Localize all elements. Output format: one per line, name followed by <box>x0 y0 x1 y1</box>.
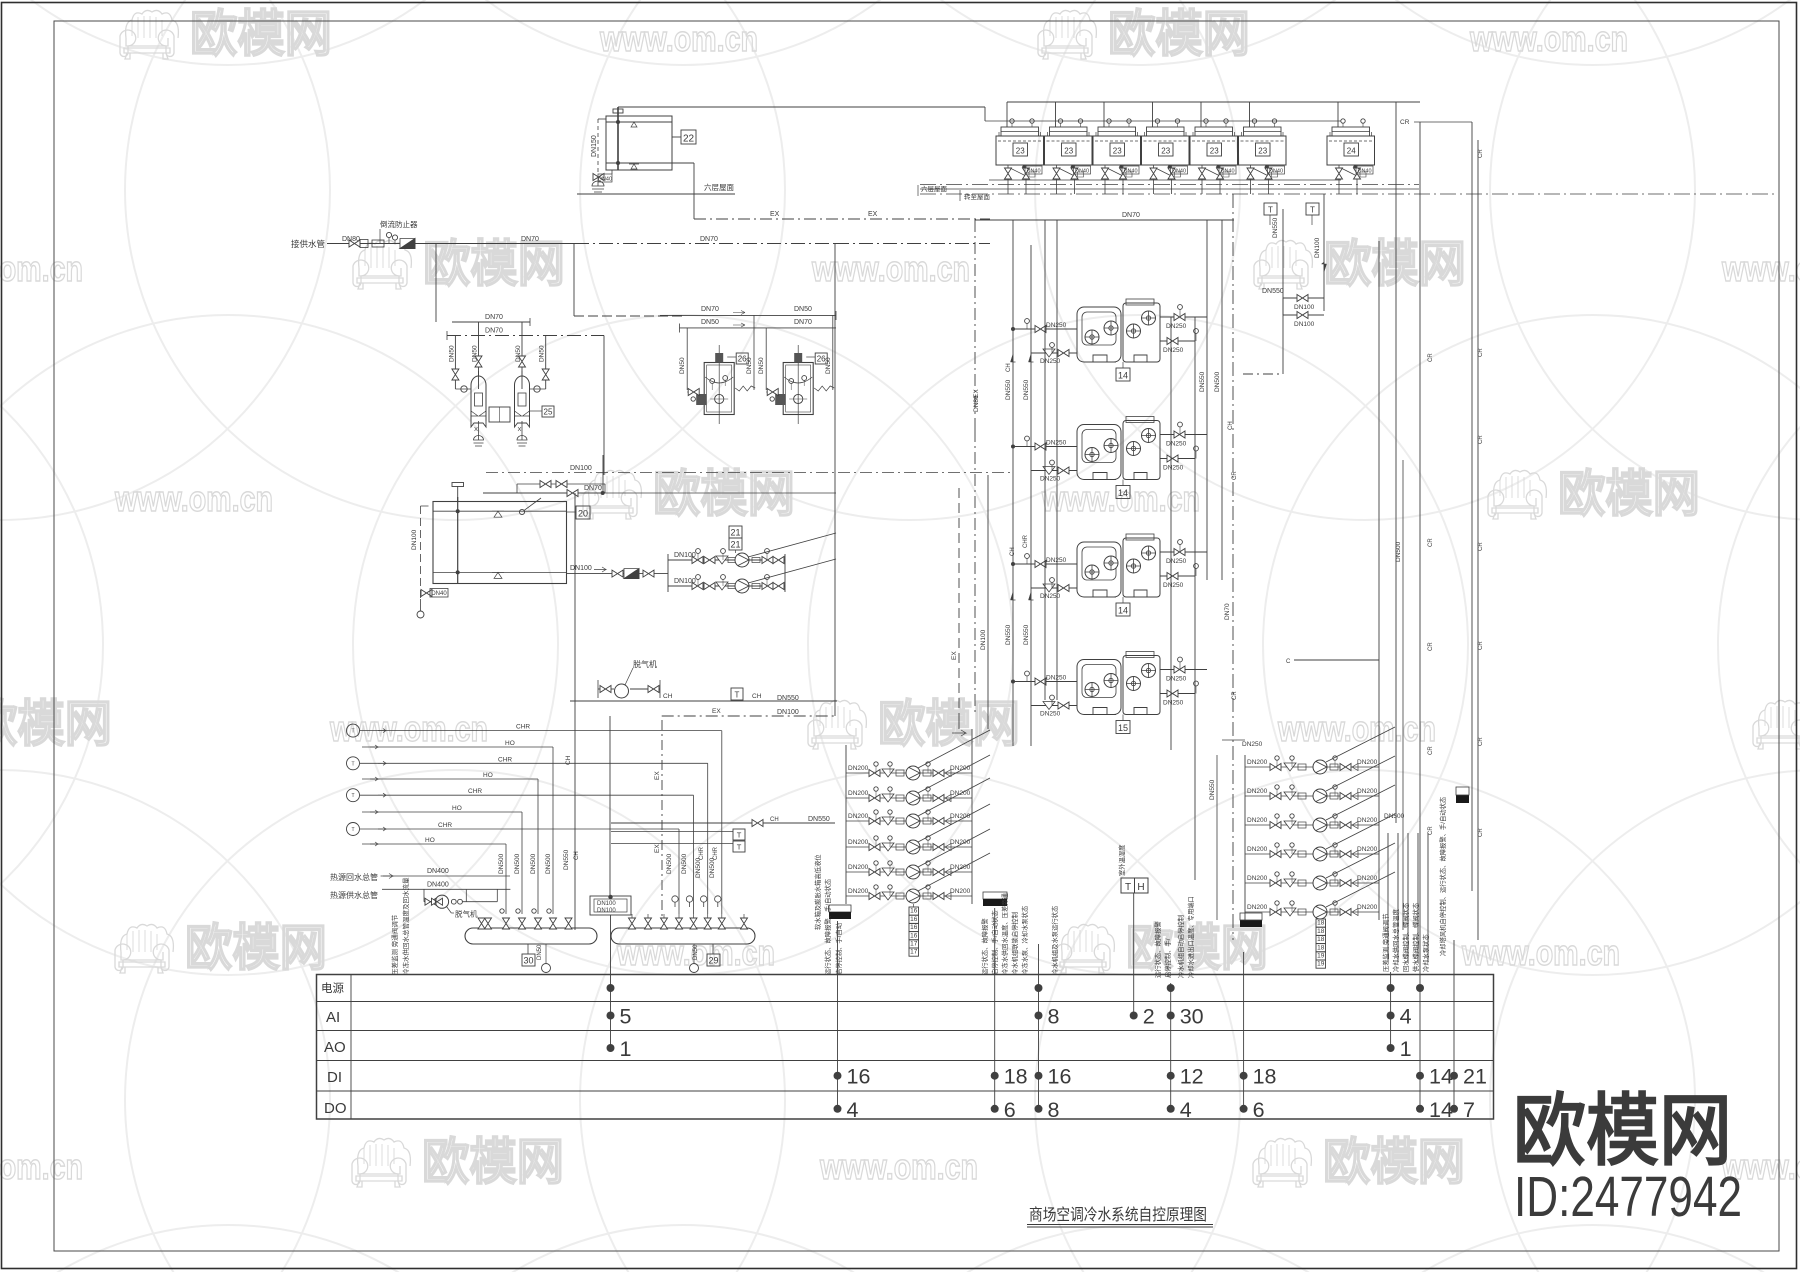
svg-text:DN100: DN100 <box>597 908 616 914</box>
CR dash-dot main <box>1232 194 1234 940</box>
svg-text:16: 16 <box>910 908 918 915</box>
outdoor T/H sensor <box>1121 878 1148 893</box>
cooling water pump row <box>1245 843 1395 890</box>
chiller feed drops <box>1044 220 1046 700</box>
svg-text:欧模网: 欧模网 <box>1513 1086 1732 1175</box>
DDC bars left <box>829 905 851 912</box>
svg-text:22: 22 <box>683 134 695 145</box>
svg-text:CR: CR <box>1232 471 1238 480</box>
svg-text:欧模网: 欧模网 <box>422 1134 564 1190</box>
discharge diagonal <box>918 829 990 867</box>
svg-text:DN70: DN70 <box>485 314 503 321</box>
wire drop <box>521 812 523 914</box>
svg-text:T: T <box>1310 206 1315 215</box>
svg-text:www.om.cn: www.om.cn <box>1461 932 1620 973</box>
svg-text:AO: AO <box>324 1039 346 1056</box>
cooling tower 24 <box>1327 102 1375 194</box>
softener tank <box>515 371 530 446</box>
IO drop wires <box>611 893 1455 1109</box>
svg-text:DN250: DN250 <box>1046 557 1067 564</box>
svg-text:DN50: DN50 <box>825 357 832 374</box>
right text columns <box>1381 796 1447 972</box>
svg-text:热源回水总管: 热源回水总管 <box>330 872 378 882</box>
svg-text:DN50: DN50 <box>448 345 455 362</box>
svg-text:DN40: DN40 <box>1075 169 1089 175</box>
discharge diagonals <box>748 533 836 557</box>
svg-text:25: 25 <box>544 408 553 417</box>
svg-text:欧模网: 欧模网 <box>653 466 795 522</box>
svg-text:DN250: DN250 <box>1166 676 1187 683</box>
discharge diagonal <box>918 804 990 842</box>
svg-text:18: 18 <box>1317 920 1325 927</box>
svg-text:六层屋面: 六层屋面 <box>921 184 948 193</box>
wire tank top to towers header <box>618 106 985 108</box>
EX line from tank <box>694 211 990 219</box>
svg-text:DN70: DN70 <box>1224 603 1231 620</box>
svg-text:14: 14 <box>1429 1098 1453 1122</box>
svg-text:6: 6 <box>1253 1098 1265 1122</box>
svg-text:CR: CR <box>1400 119 1410 126</box>
svg-text:18: 18 <box>1317 936 1325 943</box>
svg-text:4: 4 <box>847 1098 859 1122</box>
right connection block <box>1243 194 1379 920</box>
svg-text:EX: EX <box>973 389 980 398</box>
chiller risers left <box>1012 220 1014 746</box>
svg-text:DN500: DN500 <box>1395 541 1402 562</box>
svg-text:AI: AI <box>326 1009 340 1026</box>
svg-text:2: 2 <box>1143 1005 1155 1029</box>
svg-text:23: 23 <box>1064 147 1073 156</box>
cooling tower 23 <box>1093 102 1141 194</box>
svg-text:CR: CR <box>1478 737 1484 746</box>
unit 26 machine <box>687 345 755 424</box>
svg-text:DN500: DN500 <box>1384 813 1405 820</box>
svg-text:DN250: DN250 <box>1166 441 1187 448</box>
svg-text:CR: CR <box>1478 542 1484 551</box>
svg-text:20: 20 <box>578 509 588 519</box>
vertical text columns left <box>390 877 410 975</box>
svg-text:7: 7 <box>1463 1098 1475 1122</box>
svg-text:DN100: DN100 <box>570 565 592 572</box>
IO table dots and counts <box>607 984 1487 1122</box>
svg-text:DN250: DN250 <box>1040 711 1061 718</box>
svg-text:4: 4 <box>1180 1098 1192 1122</box>
svg-text:冷却水进出口温度、专用端口: 冷却水进出口温度、专用端口 <box>1186 896 1195 978</box>
svg-text:DN200: DN200 <box>1357 875 1378 882</box>
chiller group 14 <box>1011 417 1207 499</box>
svg-text:T: T <box>737 831 742 840</box>
chilled water pump group <box>829 716 1007 956</box>
svg-text:商场空调冷水系统自控原理图: 商场空调冷水系统自控原理图 <box>1029 1206 1207 1224</box>
svg-text:12: 12 <box>1180 1065 1204 1089</box>
svg-text:冷却水供回水总管温度: 冷却水供回水总管温度 <box>1391 908 1400 972</box>
svg-text:欧模网: 欧模网 <box>1324 236 1466 292</box>
svg-text:冷却塔风机自停控制、运行状态、故障报警、手/自动状态: 冷却塔风机自停控制、运行状态、故障报警、手/自动状态 <box>1438 796 1447 956</box>
chiller group 14 <box>1011 534 1207 616</box>
svg-text:4: 4 <box>1400 1005 1412 1029</box>
svg-text:欧模网: 欧模网 <box>185 920 327 976</box>
svg-text:1: 1 <box>1400 1037 1412 1061</box>
return headers below towers <box>989 179 1341 181</box>
float valve <box>524 498 541 511</box>
box 29 under header <box>712 944 714 954</box>
svg-text:T: T <box>737 843 742 852</box>
cooling water pump row <box>1245 814 1395 861</box>
svg-text:CR: CR <box>1428 538 1434 547</box>
svg-text:23: 23 <box>1258 147 1267 156</box>
svg-text:DN200: DN200 <box>1357 904 1378 911</box>
svg-text:6: 6 <box>1004 1098 1016 1122</box>
svg-text:冷冻水供回水总管温度及回水流量: 冷冻水供回水总管温度及回水流量 <box>401 877 410 975</box>
svg-text:CH: CH <box>574 851 580 860</box>
svg-text:HO: HO <box>483 772 493 779</box>
svg-text:DN100: DN100 <box>1314 237 1321 258</box>
cooling water pump group <box>1209 727 1395 968</box>
supply header <box>465 853 597 972</box>
cooling water pump row <box>1245 727 1395 774</box>
svg-text:18: 18 <box>1317 944 1325 951</box>
chiller group 15 <box>1011 652 1207 734</box>
svg-text:8: 8 <box>1048 1098 1060 1122</box>
svg-text:运行状态、故障报警: 运行状态、故障报警 <box>980 918 989 975</box>
svg-text:DN550: DN550 <box>808 816 830 823</box>
svg-text:16: 16 <box>1048 1065 1072 1089</box>
svg-text:DN100: DN100 <box>570 465 592 472</box>
svg-text:CH: CH <box>1010 547 1016 556</box>
svg-text:EX: EX <box>654 771 661 780</box>
cooling tower 23 <box>1239 102 1287 194</box>
site logo <box>1513 1086 1742 1229</box>
svg-text:19: 19 <box>1317 953 1325 960</box>
svg-text:CHR: CHR <box>468 788 482 795</box>
svg-text:EX: EX <box>654 844 661 853</box>
svg-text:DN400: DN400 <box>427 868 449 875</box>
svg-text:T: T <box>1268 206 1273 215</box>
svg-text:EX: EX <box>868 211 878 218</box>
svg-text:24: 24 <box>1347 147 1356 156</box>
IO table <box>317 975 1494 1120</box>
svg-text:DN50: DN50 <box>539 345 546 362</box>
svg-text:DN550: DN550 <box>1005 379 1012 400</box>
cooling water pump row <box>1245 872 1395 919</box>
svg-text:冷水机组联锁启停控制: 冷水机组联锁启停控制 <box>1010 912 1019 975</box>
cooling tower 23 <box>1190 102 1238 194</box>
svg-text:DN100: DN100 <box>980 629 987 650</box>
svg-text:CH: CH <box>663 693 673 700</box>
svg-text:DN70: DN70 <box>1122 212 1140 219</box>
svg-text:DN200: DN200 <box>848 813 869 820</box>
svg-text:www.om.cn: www.om.cn <box>599 18 758 59</box>
discharge diagonal <box>918 778 990 816</box>
svg-text:DN250: DN250 <box>1046 440 1067 447</box>
svg-text:DN50: DN50 <box>758 357 765 374</box>
svg-text:DN250: DN250 <box>1163 700 1184 707</box>
svg-text:DN500: DN500 <box>545 853 552 874</box>
far right risers CR <box>611 102 1484 975</box>
svg-text:www.om.cn: www.om.cn <box>819 1146 978 1187</box>
svg-text:14: 14 <box>1429 1065 1453 1089</box>
label 20 <box>576 506 590 519</box>
sensor T <box>347 823 360 836</box>
svg-text:欧模网: 欧模网 <box>1126 920 1268 976</box>
svg-text:DN100: DN100 <box>597 901 616 907</box>
wire tank to EX riser <box>672 162 694 164</box>
wire drop <box>693 795 695 914</box>
svg-text:DN50: DN50 <box>701 319 719 326</box>
svg-text:CHR: CHR <box>1023 534 1029 548</box>
svg-text:DN40: DN40 <box>1220 169 1234 175</box>
sensor T <box>347 789 360 802</box>
svg-text:脱气机: 脱气机 <box>633 659 657 669</box>
return header <box>611 846 755 972</box>
chilled water pump row <box>846 804 990 854</box>
svg-text:CR: CR <box>1478 348 1484 357</box>
svg-text:DN500: DN500 <box>514 853 521 874</box>
svg-text:DN40: DN40 <box>1357 169 1371 175</box>
svg-text:16: 16 <box>910 924 918 931</box>
unit 26 machine <box>766 345 834 424</box>
temperature sensors + CHR/HO lines <box>347 724 722 914</box>
svg-text:DN70: DN70 <box>700 236 718 243</box>
svg-text:T: T <box>735 691 740 700</box>
svg-text:17: 17 <box>910 949 918 956</box>
svg-text:17: 17 <box>910 941 918 948</box>
svg-text:DN100: DN100 <box>777 709 799 716</box>
svg-text:EX: EX <box>770 211 780 218</box>
valve + DN40 <box>593 174 604 181</box>
svg-text:26: 26 <box>738 355 747 364</box>
svg-text:CR: CR <box>1428 746 1434 755</box>
svg-text:H: H <box>1137 882 1144 893</box>
DN70 makeup line + bypass <box>483 492 603 494</box>
DN100 dash feed <box>486 472 1012 474</box>
svg-text:CH: CH <box>1228 421 1234 430</box>
svg-text:DN50: DN50 <box>746 357 753 374</box>
svg-text:DN50: DN50 <box>794 306 812 313</box>
svg-text:14: 14 <box>1118 371 1128 381</box>
svg-text:DN550: DN550 <box>1005 624 1012 645</box>
wire drop <box>552 747 554 914</box>
supply pipe 接供水管 <box>291 219 990 249</box>
svg-text:DN550: DN550 <box>1272 217 1279 238</box>
svg-text:21: 21 <box>730 540 740 550</box>
numbered boxes 18/19 <box>1316 919 1326 968</box>
svg-text:CHR: CHR <box>516 724 530 731</box>
softener tank <box>471 371 486 446</box>
svg-text:DN250: DN250 <box>1046 675 1067 682</box>
wire drop <box>721 731 723 914</box>
svg-text:CR: CR <box>1232 691 1238 700</box>
DDC bars right <box>983 892 1007 899</box>
svg-text:运行状态、故障报警: 运行状态、故障报警 <box>1153 921 1162 978</box>
svg-text:DN200: DN200 <box>950 888 971 895</box>
svg-text:DN550: DN550 <box>1023 379 1030 400</box>
svg-text:DN100: DN100 <box>1294 304 1315 311</box>
svg-text:EX: EX <box>712 708 721 715</box>
svg-text:29: 29 <box>708 956 718 966</box>
wire to tank inlet <box>603 336 605 476</box>
svg-text:倒流防止器: 倒流防止器 <box>380 219 418 229</box>
svg-text:C: C <box>1286 659 1291 665</box>
svg-text:DN250: DN250 <box>1040 476 1061 483</box>
svg-text:冷却水泵状态: 冷却水泵状态 <box>1421 934 1430 972</box>
discharge diagonal <box>918 755 990 793</box>
svg-text:DN200: DN200 <box>1247 875 1268 882</box>
svg-text:CR: CR <box>1478 641 1484 650</box>
svg-text:CH: CH <box>752 693 762 700</box>
EX vertical risers center <box>958 488 960 716</box>
sensor T <box>347 724 360 737</box>
svg-text:DN500: DN500 <box>666 853 673 874</box>
svg-text:www.om.cn: www.om.cn <box>114 478 273 519</box>
svg-text:欧模网: 欧模网 <box>1558 466 1700 522</box>
svg-text:DN250: DN250 <box>1040 358 1061 365</box>
label 22 <box>672 136 681 138</box>
svg-text:T: T <box>351 761 354 767</box>
svg-text:电源: 电源 <box>321 981 344 995</box>
svg-text:六层屋面: 六层屋面 <box>704 182 734 192</box>
svg-text:CR: CR <box>1478 435 1484 444</box>
svg-text:DN550: DN550 <box>1209 779 1216 800</box>
svg-text:DN70: DN70 <box>521 236 539 243</box>
svg-text:DN550: DN550 <box>1262 288 1284 295</box>
dosing units 26 <box>660 306 836 424</box>
svg-text:DN200: DN200 <box>950 813 971 820</box>
svg-text:欧模网: 欧模网 <box>1108 6 1250 62</box>
svg-text:CHR: CHR <box>713 846 719 860</box>
svg-text:DN200: DN200 <box>848 765 869 772</box>
svg-text:HO: HO <box>425 837 435 844</box>
svg-text:DN200: DN200 <box>848 790 869 797</box>
deaerator pump loop <box>423 889 425 901</box>
svg-text:DN200: DN200 <box>1247 904 1268 911</box>
svg-text:21: 21 <box>730 528 740 538</box>
svg-text:DN50: DN50 <box>679 357 686 374</box>
svg-text:DN200: DN200 <box>1247 788 1268 795</box>
towers supply header <box>1007 101 1420 103</box>
svg-text:DN200: DN200 <box>848 888 869 895</box>
svg-text:19: 19 <box>1317 961 1325 968</box>
svg-text:DN500: DN500 <box>1214 371 1221 392</box>
svg-text:30: 30 <box>523 956 533 966</box>
svg-text:欧模网: 欧模网 <box>423 236 565 292</box>
svg-text:热源供水总管: 热源供水总管 <box>330 890 378 900</box>
svg-text:DN250: DN250 <box>1163 582 1184 589</box>
cooling water pump row <box>1245 756 1395 803</box>
svg-text:www.om.cn: www.om.cn <box>1277 708 1436 749</box>
svg-text:脱气机: 脱气机 <box>455 909 478 919</box>
svg-text:23: 23 <box>1016 147 1025 156</box>
svg-text:DN250: DN250 <box>1163 347 1184 354</box>
deaerator top 脱气机 <box>598 659 660 698</box>
svg-text:CH: CH <box>1006 363 1012 372</box>
svg-text:DN40: DN40 <box>1172 169 1186 175</box>
svg-text:EX: EX <box>951 651 958 660</box>
chiller plant section <box>973 194 1238 940</box>
svg-text:DN550: DN550 <box>563 849 570 870</box>
svg-text:30: 30 <box>1180 1005 1204 1029</box>
riser x575 lower <box>574 493 576 701</box>
svg-text:接供水管: 接供水管 <box>291 239 325 249</box>
wire drop <box>537 779 539 914</box>
svg-text:CR: CR <box>1478 828 1484 837</box>
drain funnel <box>592 181 604 192</box>
svg-text:8: 8 <box>1048 1005 1060 1029</box>
svg-text:DN550: DN550 <box>1023 624 1030 645</box>
svg-text:DN200: DN200 <box>1357 759 1378 766</box>
svg-text:DN70: DN70 <box>584 485 602 492</box>
svg-text:18: 18 <box>1253 1065 1277 1089</box>
DN100 makeup box <box>590 895 631 915</box>
tank outlet DN100 <box>567 573 669 575</box>
chilled water pump row <box>846 829 990 879</box>
DDC bar left <box>1240 920 1262 927</box>
svg-text:16: 16 <box>847 1065 871 1089</box>
svg-text:DN200: DN200 <box>1247 846 1268 853</box>
svg-text:DN200: DN200 <box>1357 817 1378 824</box>
svg-text:DN70: DN70 <box>485 328 503 335</box>
chilled water pump row <box>846 778 990 828</box>
CH header y701 <box>570 688 837 716</box>
svg-text:室外温湿度: 室外温湿度 <box>1117 844 1126 876</box>
svg-text:DN250: DN250 <box>1163 465 1184 472</box>
svg-text:DN200: DN200 <box>1247 759 1268 766</box>
svg-text:DI: DI <box>327 1069 342 1086</box>
svg-text:DN100: DN100 <box>1294 321 1315 328</box>
svg-text:DN40: DN40 <box>431 591 447 597</box>
svg-text:DN250: DN250 <box>1046 322 1067 329</box>
wire drop <box>505 844 507 914</box>
svg-text:T: T <box>351 793 354 799</box>
sensor T <box>347 757 360 770</box>
svg-text:16: 16 <box>910 916 918 923</box>
svg-text:DN200: DN200 <box>848 839 869 846</box>
riser x574 to manifold <box>573 244 575 317</box>
svg-text:DN250: DN250 <box>1166 558 1187 565</box>
svg-text:软水箱及膨胀水箱高低液位: 软水箱及膨胀水箱高低液位 <box>813 854 822 930</box>
svg-text:HO: HO <box>452 805 462 812</box>
svg-text:冷冻水供回水温度、压差旁通: 冷冻水供回水温度、压差旁通 <box>1000 892 1009 975</box>
svg-text:DN250: DN250 <box>1040 593 1061 600</box>
svg-text:冷水机组自动启停控制: 冷水机组自动启停控制 <box>1176 915 1185 978</box>
svg-text:23: 23 <box>1210 147 1219 156</box>
deck line <box>985 120 1341 122</box>
svg-text:DN70: DN70 <box>701 306 719 313</box>
svg-text:DN200: DN200 <box>1357 788 1378 795</box>
svg-text:DN550: DN550 <box>777 695 799 702</box>
svg-text:T: T <box>351 827 354 833</box>
T boxes right of headers <box>611 829 745 852</box>
svg-text:DN500: DN500 <box>530 853 537 874</box>
cooling water pump row <box>1245 785 1395 832</box>
cooling tower 23 <box>1045 102 1093 194</box>
cooling tower 23 <box>1142 102 1190 194</box>
svg-text:DN400: DN400 <box>427 882 449 889</box>
svg-text:14: 14 <box>1118 606 1128 616</box>
svg-text:DN250: DN250 <box>1242 741 1263 748</box>
svg-text:欧模网: 欧模网 <box>1323 1134 1465 1190</box>
svg-text:HO: HO <box>505 740 515 747</box>
svg-text:DN150: DN150 <box>591 135 598 157</box>
chilled water pump row <box>846 730 990 780</box>
svg-text:欧模网: 欧模网 <box>878 696 1020 752</box>
svg-text:DN550: DN550 <box>1199 371 1206 392</box>
main CH line continues (dash-dot) <box>575 243 835 245</box>
svg-text:DN200: DN200 <box>1357 846 1378 853</box>
svg-text:T: T <box>1125 882 1131 893</box>
chilled water pump row <box>846 755 990 805</box>
svg-text:运行状态、故障报警、手/自动状态: 运行状态、故障报警、手/自动状态 <box>823 878 832 975</box>
